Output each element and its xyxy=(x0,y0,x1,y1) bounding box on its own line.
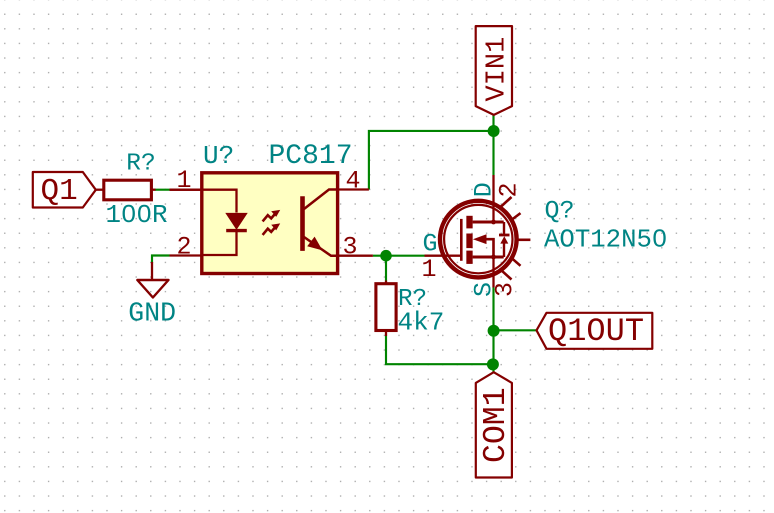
Q2 source pin xyxy=(492,257,494,288)
svg-text:PC817: PC817 xyxy=(269,141,353,172)
resistor R2 4k7 xyxy=(376,281,396,337)
wire R2 bottom to COM1 junction xyxy=(386,336,493,364)
Q2 bulk connection xyxy=(486,239,494,257)
wire VIN1 tip down to Q2 drain pin xyxy=(492,115,494,175)
svg-text:AOT12N50: AOT12N50 xyxy=(544,226,667,255)
Q2 source internal horizontal xyxy=(473,256,504,259)
Q2 channel bar top xyxy=(466,216,472,229)
U1 LED anode triangle xyxy=(226,213,247,229)
Q2 channel bar middle xyxy=(466,234,472,249)
junction at Q1OUT xyxy=(488,325,500,337)
transistor Q2 AOT12N50 MOSFET xyxy=(425,175,531,288)
ground symbol GND xyxy=(137,262,168,298)
Q2 internal junction drain xyxy=(491,220,496,225)
U1 pin 1 lead xyxy=(170,190,237,213)
Q2 channel bar bottom xyxy=(466,251,472,264)
Q2 gate bar xyxy=(460,219,463,261)
value AOT12N50 of Q2 xyxy=(544,226,667,255)
U1 pin 1 xyxy=(170,189,202,191)
svg-text:2: 2 xyxy=(495,182,524,197)
Q2 ray 2 xyxy=(510,213,520,221)
U1 photon arrow lower xyxy=(263,223,281,235)
svg-text:4k7: 4k7 xyxy=(398,308,445,338)
U1 photon arrow upper xyxy=(263,210,281,222)
wire U1 pin2 to GND xyxy=(152,256,170,264)
U1 phototransistor collector xyxy=(304,190,338,210)
Q2 ray 3 xyxy=(518,239,530,242)
Q2 body outer circle xyxy=(440,201,517,278)
Q2 body diode triangle xyxy=(500,236,508,243)
svg-text:100R: 100R xyxy=(106,201,168,230)
junction at COM1 xyxy=(487,358,499,370)
svg-text:VIN1: VIN1 xyxy=(483,37,513,102)
Q2 ray 5 xyxy=(500,269,511,279)
junction at gate / R2 xyxy=(380,250,392,262)
Q2 body diode cathode bar xyxy=(499,234,510,237)
U1 phototransistor base bar xyxy=(300,196,305,251)
svg-text:Q1: Q1 xyxy=(41,174,78,209)
Q2 body inner circle xyxy=(444,205,512,273)
global label Q1 xyxy=(33,172,96,209)
svg-text:3: 3 xyxy=(491,282,520,297)
U1 pin 2 xyxy=(170,254,202,256)
Q2 internal junction source xyxy=(491,255,496,260)
U1 pin 3 xyxy=(338,255,373,257)
wire junction to Q1OUT label xyxy=(494,329,537,331)
svg-text:GND: GND xyxy=(128,298,176,328)
svg-text:1: 1 xyxy=(422,255,437,284)
wire U1 pin3 to Q2 gate xyxy=(373,255,425,257)
global label VIN1 xyxy=(476,26,513,115)
Q2 drain internal horizontal xyxy=(473,221,504,224)
wire gate junction down to R2 top xyxy=(385,256,387,281)
svg-text:R?: R? xyxy=(126,151,155,178)
value 100R of R1 xyxy=(106,201,168,230)
Q2 ray 1 xyxy=(500,197,512,208)
Q2 bulk arrow xyxy=(473,234,487,244)
wire Q2 source down through junctions to COM1 tip xyxy=(492,288,494,373)
U1 LED cathode bar xyxy=(226,229,247,232)
wire R1 right to U1 pin1 xyxy=(155,189,170,191)
resistor R1 100R xyxy=(96,180,156,200)
U1 pin 4 xyxy=(338,188,369,190)
Q2 gate pin xyxy=(425,255,462,257)
U1 phototransistor emitter with arrow xyxy=(304,237,338,256)
svg-text:3: 3 xyxy=(343,233,358,262)
svg-text:2: 2 xyxy=(177,233,192,262)
Q2 ray 4 xyxy=(510,257,520,266)
wire U1 pin4 up and right to VIN1 junction xyxy=(369,131,494,190)
Q2 drain pin xyxy=(492,175,494,222)
optocoupler U1 PC817 body xyxy=(170,173,373,274)
global label Q1OUT xyxy=(537,313,653,350)
svg-text:1: 1 xyxy=(177,166,192,195)
svg-text:Q1OUT: Q1OUT xyxy=(548,313,644,350)
global label COM1 xyxy=(476,372,514,477)
junction at VIN1 xyxy=(488,125,500,137)
svg-text:Q?: Q? xyxy=(545,197,575,226)
U1 pin 2 lead xyxy=(202,231,237,255)
svg-text:COM1: COM1 xyxy=(479,387,514,463)
Q2 body diode verticals xyxy=(503,222,505,257)
svg-text:U?: U? xyxy=(203,141,234,171)
